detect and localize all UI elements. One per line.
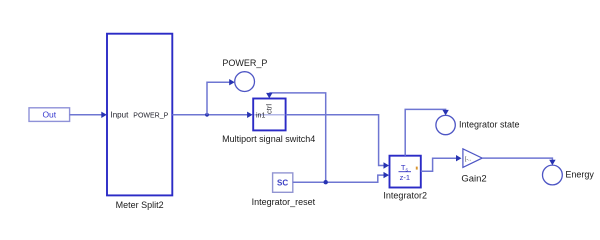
svg-text:Integrator_reset: Integrator_reset <box>252 197 316 207</box>
wire branch to POWER_P scope <box>207 79 235 115</box>
wire ctrl net from junction up and into switch ctrl port <box>266 93 326 182</box>
wire switch output to Integrator2 input 1 <box>286 115 389 169</box>
wire Meter Split2 POWER_P to switch in1 <box>172 112 252 118</box>
junction node on POWER_P wire <box>205 113 209 117</box>
svg-text:Out: Out <box>42 110 56 120</box>
svg-text:Energy: Energy <box>565 169 594 179</box>
wire Integrator2 state port to Integrator state scope <box>405 109 449 155</box>
gain triangle Gain2 <box>463 149 482 168</box>
svg-text:SC: SC <box>277 179 288 188</box>
svg-text:Multiport signal switch4: Multiport signal switch4 <box>222 134 315 144</box>
scope circle POWER_P <box>235 72 255 92</box>
svg-text:ctrl: ctrl <box>265 104 274 114</box>
svg-text:POWER_P: POWER_P <box>133 112 168 119</box>
svg-text:Input: Input <box>111 111 130 120</box>
svg-text:Meter Split2: Meter Split2 <box>116 200 164 210</box>
block Multiport signal switch4 <box>253 99 285 131</box>
svg-text:z-1: z-1 <box>400 173 410 182</box>
wire Gain2 output to Energy scope <box>482 158 555 165</box>
svg-text:POWER_P: POWER_P <box>222 58 267 68</box>
block SC (signal constant) <box>273 173 293 192</box>
junction node SC net <box>324 180 328 184</box>
scope circle Energy <box>543 165 563 185</box>
svg-text:Integrator2: Integrator2 <box>383 191 427 201</box>
wire Integrator2 output to Gain2 <box>421 155 462 171</box>
svg-text:[-..: [-.. <box>465 157 472 163</box>
scope circle Integrator state <box>436 115 455 134</box>
wire SC output to Integrator2 input 2 <box>293 172 389 182</box>
wire Out to Meter Split2 input <box>70 112 107 118</box>
svg-text:Integrator state: Integrator state <box>459 120 520 130</box>
block Meter Split2 <box>107 34 172 196</box>
svg-text:Gain2: Gain2 <box>461 173 486 184</box>
block Integrator2 <box>390 156 421 188</box>
outport block Out <box>29 108 70 122</box>
